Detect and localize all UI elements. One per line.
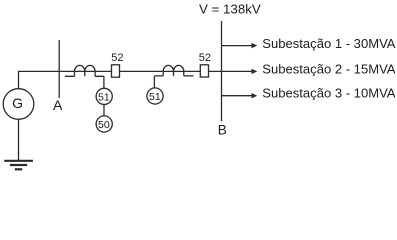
svg-text:G: G bbox=[12, 95, 23, 111]
svg-text:52: 52 bbox=[111, 52, 123, 64]
svg-text:B: B bbox=[218, 122, 227, 137]
svg-text:Subestação 2 - 15MVA: Subestação 2 - 15MVA bbox=[262, 61, 395, 76]
svg-text:51: 51 bbox=[98, 91, 110, 103]
svg-text:52: 52 bbox=[199, 52, 211, 64]
svg-text:V = 138kV: V = 138kV bbox=[199, 2, 261, 17]
svg-text:50: 50 bbox=[98, 119, 110, 131]
svg-text:Subestação 1 - 30MVA: Subestação 1 - 30MVA bbox=[262, 36, 395, 51]
svg-text:51: 51 bbox=[149, 91, 161, 103]
svg-text:A: A bbox=[53, 97, 63, 113]
svg-text:Subestação 3 - 10MVA: Subestação 3 - 10MVA bbox=[262, 86, 395, 101]
